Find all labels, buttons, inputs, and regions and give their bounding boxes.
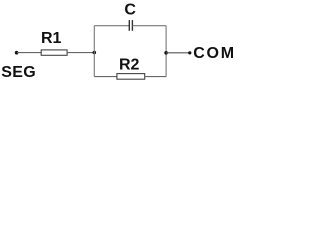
capacitor C plates (129, 20, 132, 31)
wire bottom branch right (R2 to right riser) (145, 76, 166, 78)
resistor R1 (41, 50, 67, 55)
svg-text:R1: R1 (41, 30, 62, 47)
svg-text:C: C (124, 2, 136, 19)
svg-text:SEG: SEG (1, 64, 36, 81)
resistor R2 (117, 74, 145, 80)
wire R1 to left junction (67, 52, 94, 54)
svg-text:COM: COM (193, 45, 236, 62)
wire top branch left (to capacitor C) (94, 25, 129, 27)
node SEG terminal dot (15, 51, 19, 55)
node COM terminal dot (188, 51, 191, 54)
wire left riser (vertical) (93, 26, 95, 77)
wire SEG terminal to R1 (17, 52, 41, 54)
wire right junction to COM terminal (166, 52, 189, 54)
wire top branch right (capacitor C to right riser) (132, 25, 166, 27)
junction node at left riser (93, 51, 97, 55)
wire right riser (vertical) (165, 26, 167, 77)
wire bottom branch left (left riser to R2) (94, 76, 117, 78)
svg-text:R2: R2 (119, 57, 140, 74)
junction node at right riser (164, 51, 168, 55)
